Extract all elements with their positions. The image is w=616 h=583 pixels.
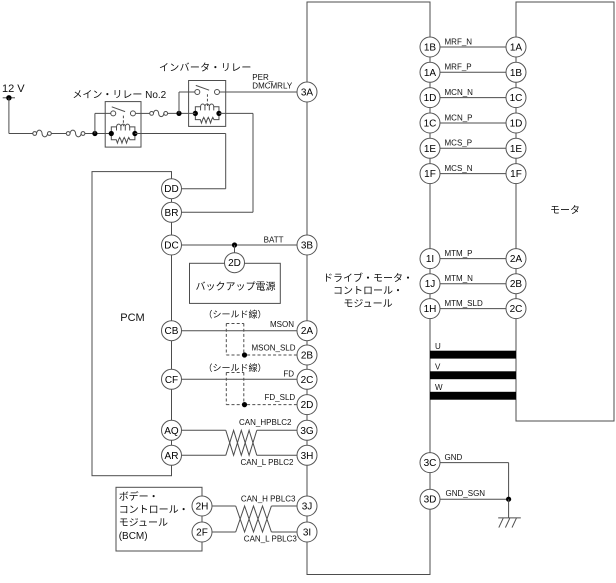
svg-text:CAN_L PBLC3: CAN_L PBLC3	[244, 535, 298, 544]
svg-text:FD: FD	[283, 370, 294, 379]
svg-text:1C: 1C	[510, 93, 523, 104]
svg-text:3B: 3B	[301, 241, 314, 252]
svg-text:MSON: MSON	[270, 320, 294, 329]
svg-text:BR: BR	[165, 208, 179, 219]
svg-text:CB: CB	[165, 326, 179, 337]
svg-text:3H: 3H	[301, 451, 314, 462]
svg-text:BATT: BATT	[264, 235, 284, 244]
svg-text:CAN_H PBLC3: CAN_H PBLC3	[241, 495, 296, 504]
svg-text:1E: 1E	[424, 144, 437, 155]
svg-text:PCM: PCM	[120, 312, 144, 324]
svg-text:FD_SLD: FD_SLD	[265, 393, 296, 402]
svg-text:AR: AR	[165, 451, 179, 462]
svg-text:1D: 1D	[510, 119, 523, 130]
svg-text:2C: 2C	[510, 304, 523, 315]
svg-text:1A: 1A	[510, 43, 523, 54]
svg-text:MCN_N: MCN_N	[445, 88, 474, 97]
svg-text:モジュール: モジュール	[119, 518, 168, 529]
svg-text:3A: 3A	[301, 88, 314, 99]
svg-text:CAN_L PBLC2: CAN_L PBLC2	[240, 458, 294, 467]
svg-text:DD: DD	[164, 184, 178, 195]
svg-text:CAN_HPBLC2: CAN_HPBLC2	[239, 418, 292, 427]
svg-text:1A: 1A	[424, 68, 437, 79]
svg-text:メイン・リレー No.2: メイン・リレー No.2	[72, 90, 166, 101]
svg-text:(BCM): (BCM)	[119, 531, 148, 542]
svg-text:2B: 2B	[510, 279, 523, 290]
svg-text:2C: 2C	[301, 375, 314, 386]
svg-text:1B: 1B	[510, 68, 523, 79]
svg-text:2B: 2B	[301, 351, 314, 362]
svg-text:1E: 1E	[510, 144, 523, 155]
svg-text:MTM_SLD: MTM_SLD	[445, 299, 483, 308]
svg-text:DMCMRLY: DMCMRLY	[252, 81, 293, 90]
svg-text:MCS_N: MCS_N	[445, 164, 473, 173]
svg-text:CF: CF	[165, 375, 178, 386]
svg-text:コントロール・: コントロール・	[119, 505, 189, 516]
svg-text:2D: 2D	[228, 258, 241, 269]
svg-text:DC: DC	[164, 241, 178, 252]
svg-text:2A: 2A	[510, 254, 523, 265]
svg-text:AQ: AQ	[164, 426, 179, 437]
svg-text:ドライブ・モータ・: ドライブ・モータ・	[323, 272, 413, 285]
svg-text:MTM_P: MTM_P	[445, 249, 473, 258]
svg-text:MRF_P: MRF_P	[445, 63, 472, 72]
svg-text:2A: 2A	[301, 326, 314, 337]
svg-text:3J: 3J	[302, 502, 313, 513]
svg-text:V: V	[435, 363, 441, 372]
svg-text:3I: 3I	[303, 528, 311, 539]
svg-text:3C: 3C	[424, 458, 437, 469]
svg-text:（シールド線）: （シールド線）	[203, 362, 266, 373]
svg-text:MCS_P: MCS_P	[445, 139, 473, 148]
svg-text:モータ: モータ	[550, 205, 580, 217]
svg-text:1H: 1H	[424, 304, 437, 315]
svg-text:モジュール: モジュール	[343, 299, 392, 310]
svg-text:3D: 3D	[424, 495, 437, 506]
svg-text:ボデー・: ボデー・	[119, 490, 159, 503]
svg-text:バックアップ電源: バックアップ電源	[196, 280, 276, 293]
svg-text:3G: 3G	[300, 426, 314, 437]
svg-text:2F: 2F	[196, 528, 208, 539]
svg-text:W: W	[435, 383, 443, 392]
svg-text:GND_SGN: GND_SGN	[446, 489, 486, 498]
svg-text:2H: 2H	[196, 502, 209, 513]
svg-text:MSON_SLD: MSON_SLD	[252, 344, 296, 353]
svg-text:12 V: 12 V	[2, 83, 25, 95]
svg-text:インバータ・リレー: インバータ・リレー	[159, 62, 252, 74]
svg-text:1F: 1F	[510, 169, 522, 180]
svg-text:（シールド線）: （シールド線）	[203, 309, 266, 320]
svg-text:1I: 1I	[426, 254, 434, 265]
svg-text:2D: 2D	[301, 400, 314, 411]
svg-text:MRF_N: MRF_N	[445, 37, 473, 46]
svg-text:MCN_P: MCN_P	[445, 113, 473, 122]
svg-text:1C: 1C	[424, 119, 437, 130]
svg-text:1F: 1F	[424, 169, 436, 180]
svg-text:コントロール・: コントロール・	[333, 286, 403, 297]
svg-text:1D: 1D	[424, 93, 437, 104]
svg-text:1J: 1J	[425, 279, 436, 290]
svg-text:U: U	[435, 342, 441, 351]
svg-text:GND: GND	[445, 453, 463, 462]
svg-text:1B: 1B	[424, 43, 437, 54]
svg-text:MTM_N: MTM_N	[445, 274, 474, 283]
